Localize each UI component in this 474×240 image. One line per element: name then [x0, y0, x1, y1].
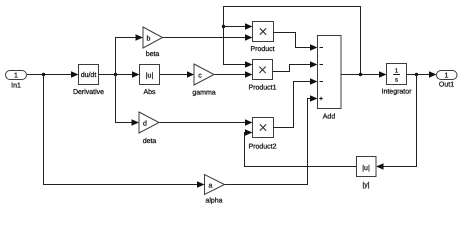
gain beta	[143, 27, 163, 58]
junction after Derivative	[114, 73, 117, 76]
svg-text:Add: Add	[323, 113, 336, 121]
wire branch up to beta	[116, 34, 144, 74]
wire Product2 out to Add in3	[274, 78, 318, 127]
block Product	[250, 22, 274, 54]
wire Integrator output down to Abs1 input	[376, 75, 417, 170]
svg-text:Out1: Out1	[439, 82, 454, 89]
block Abs1 named y	[357, 157, 377, 190]
wire alpha to Add in4	[225, 95, 318, 184]
svg-text:c: c	[198, 73, 202, 80]
svg-text:1: 1	[14, 73, 18, 80]
svg-text:deta: deta	[143, 137, 157, 145]
svg-text:Integrator: Integrator	[382, 89, 413, 96]
outport Out1	[437, 71, 458, 89]
svg-text:Derivative: Derivative	[73, 88, 104, 96]
wire feedback branch to Product in1	[224, 23, 253, 29]
block Product2	[248, 118, 276, 151]
svg-text:beta: beta	[146, 50, 160, 58]
wire deta to Product2 in1	[160, 119, 253, 125]
svg-text:In1: In1	[11, 83, 21, 90]
svg-text:a: a	[209, 183, 213, 190]
block Abs	[140, 65, 160, 97]
gain gamma	[192, 64, 215, 97]
svg-text:b: b	[147, 35, 151, 43]
svg-text:Product: Product	[250, 45, 274, 53]
svg-text:gamma: gamma	[192, 90, 215, 97]
svg-text:|u|: |u|	[146, 72, 154, 80]
svg-text:d: d	[143, 120, 147, 128]
wire In1 to Derivative	[27, 71, 79, 77]
svg-text:Product1: Product1	[248, 84, 276, 92]
svg-text:Product2: Product2	[248, 143, 276, 151]
wire Abs to gamma	[160, 71, 195, 77]
wire In1 branch down to alpha	[44, 75, 205, 188]
wire Product1 out to Add in2	[273, 61, 318, 71]
wire beta to Product in2	[163, 34, 253, 40]
gain deta	[139, 112, 159, 145]
wire gamma to Product1 in2	[215, 71, 253, 77]
gain alpha	[205, 175, 225, 205]
block Integrator	[382, 64, 413, 96]
svg-text:|u|: |u|	[362, 164, 370, 172]
svg-text:Abs: Abs	[143, 88, 156, 96]
svg-text:alpha: alpha	[205, 197, 222, 205]
block Product1	[248, 60, 276, 92]
block Add	[318, 36, 342, 121]
svg-text:1: 1	[445, 73, 449, 80]
wire Integrator to Out1	[407, 71, 437, 77]
junction on Add output for feedback	[359, 73, 362, 76]
svg-text:|y|: |y|	[362, 181, 369, 189]
wire branch down to deta	[116, 75, 140, 126]
junction on feedback to Product in1	[222, 25, 225, 28]
inport In1	[6, 71, 27, 90]
wire Add to Integrator	[341, 71, 387, 77]
block Derivative	[73, 65, 104, 97]
wire Derivative to Abs	[99, 71, 140, 77]
junction at In1 branch	[42, 73, 45, 76]
feedback wire from Add output up over top to Product1 in1	[224, 7, 361, 75]
junction on Integrator output	[415, 73, 418, 76]
svg-text:du/dt: du/dt	[81, 71, 97, 79]
wire Abs1 out to Product2 in2	[245, 129, 357, 166]
wire Product out to Add in1	[274, 33, 318, 51]
svg-text:s: s	[395, 78, 398, 84]
